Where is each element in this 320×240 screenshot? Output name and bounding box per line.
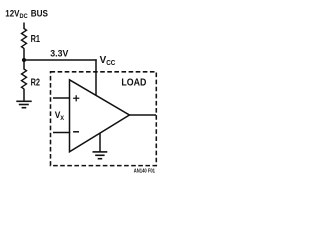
wire: R1 to node <box>23 48 25 60</box>
op-amp U1 + input symbol <box>73 95 79 101</box>
wire: VCC drop to op-amp supply <box>95 59 97 95</box>
op-amp U1 <box>70 80 130 152</box>
svg-text:X: X <box>60 115 64 122</box>
wire: op-amp ground stub <box>99 133 101 152</box>
wire: 12V bus into R1 <box>23 23 25 30</box>
wire: op-amp output <box>130 114 157 116</box>
wire: node to VCC corner <box>24 59 97 61</box>
svg-text:CC: CC <box>106 60 115 67</box>
op-amp U1 - input symbol <box>73 131 79 133</box>
svg-text:R2: R2 <box>31 77 40 88</box>
wire: inverting input stub <box>53 132 70 134</box>
wire: R2 to ground <box>23 89 25 102</box>
ground: divider ground <box>16 101 31 107</box>
net label: 12VDC BUS <box>5 8 48 20</box>
svg-text:3.3V: 3.3V <box>50 48 69 59</box>
wire: noninverting input stub <box>53 97 70 99</box>
svg-text:AN140 F01: AN140 F01 <box>134 169 155 175</box>
svg-text:LOAD: LOAD <box>121 77 146 88</box>
ground: op-amp ground <box>93 152 108 159</box>
dashed box: LOAD outline <box>51 72 157 166</box>
wire: node to R2 <box>23 60 25 70</box>
label VCC <box>100 55 116 67</box>
resistor R2 <box>22 69 27 89</box>
svg-text:BUS: BUS <box>31 9 49 20</box>
node: 3.3V junction <box>22 58 26 62</box>
svg-text:DC: DC <box>20 13 28 20</box>
label VX <box>55 110 65 122</box>
svg-text:R1: R1 <box>31 34 41 45</box>
svg-text:12V: 12V <box>5 8 20 19</box>
resistor R1 <box>22 29 27 49</box>
